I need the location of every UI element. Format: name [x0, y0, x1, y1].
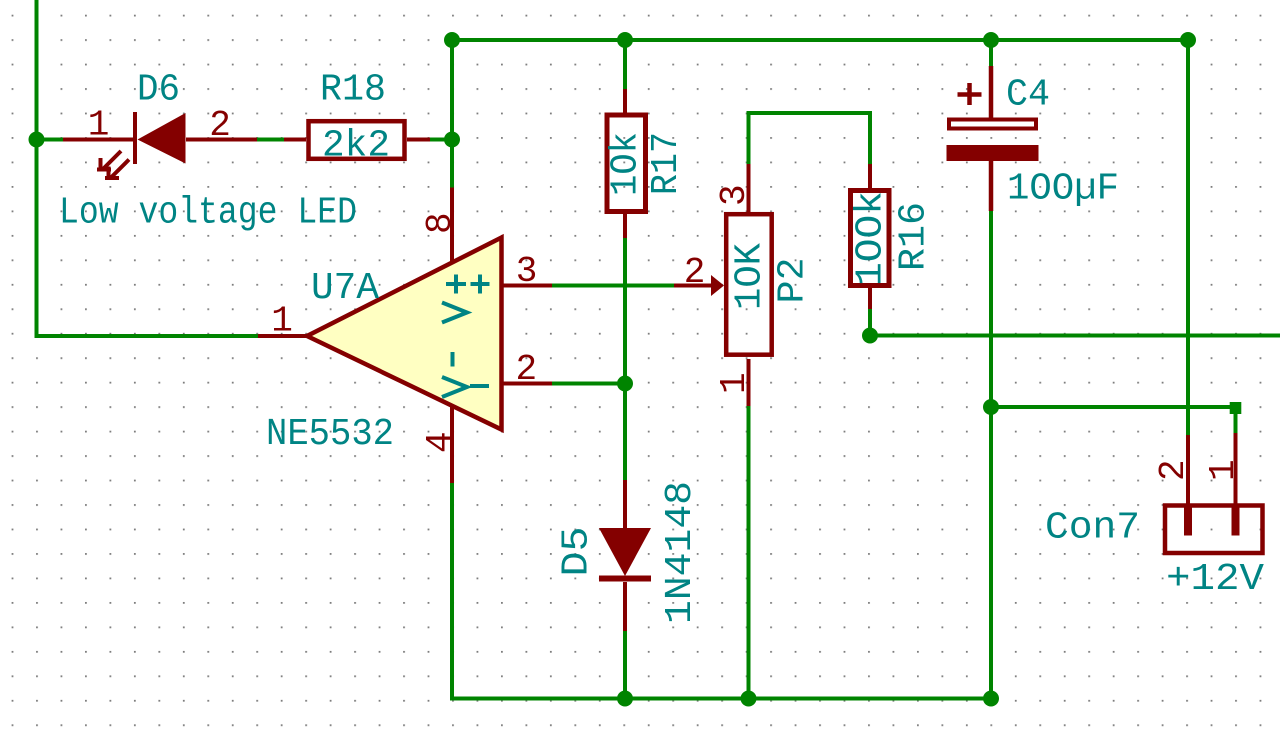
svg-text:D6: D6 — [137, 69, 180, 112]
svg-text:+12V: +12V — [1166, 558, 1264, 601]
svg-text:1: 1 — [88, 105, 110, 146]
svg-text:1OOµF: 1OOµF — [1007, 168, 1119, 211]
svg-text:2: 2 — [209, 105, 231, 146]
svg-text:Con7: Con7 — [1045, 507, 1140, 550]
svg-text:1: 1 — [714, 372, 755, 394]
svg-text:2: 2 — [515, 349, 537, 390]
svg-text:3: 3 — [714, 184, 755, 206]
svg-text:2: 2 — [684, 252, 706, 293]
svg-text:NE5532: NE5532 — [266, 413, 394, 456]
svg-text:1OK: 1OK — [729, 243, 772, 310]
svg-text:1OOk: 1OOk — [850, 191, 893, 286]
svg-text:1N4148: 1N4148 — [659, 481, 702, 624]
svg-text:1: 1 — [271, 301, 293, 342]
svg-text:3: 3 — [516, 251, 538, 292]
svg-text:4: 4 — [420, 431, 461, 453]
svg-text:8: 8 — [420, 212, 461, 234]
svg-text:1: 1 — [1203, 459, 1244, 481]
svg-text:R18: R18 — [320, 69, 386, 112]
svg-text:2k2: 2k2 — [322, 125, 390, 168]
svg-text:P2: P2 — [772, 258, 815, 304]
svg-text:R16: R16 — [893, 202, 936, 271]
svg-text:U7A: U7A — [311, 267, 379, 310]
svg-text:Low voltage LED: Low voltage LED — [59, 192, 357, 235]
svg-text:1Ok: 1Ok — [605, 132, 648, 196]
svg-text:2: 2 — [1153, 459, 1194, 481]
svg-text:D5: D5 — [556, 527, 599, 577]
svg-text:C4: C4 — [1006, 74, 1050, 117]
svg-text:R17: R17 — [645, 132, 688, 195]
